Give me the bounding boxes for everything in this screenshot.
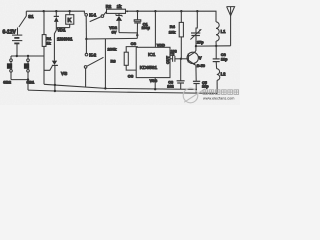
svg-text:R4: R4 [170,24,176,29]
node SB1 top junction [27,55,29,57]
wire C2 to base [175,58,188,60]
svg-text:R3: R3 [111,59,117,64]
svg-text:R1: R1 [46,37,51,41]
wire VD2 bottom to C1 node [119,33,137,36]
svg-text:27p: 27p [197,41,204,45]
node R2 right end [126,10,128,12]
node K coil top junction [69,10,71,12]
svg-text:VD1: VD1 [57,28,66,33]
node K-2 top junction [85,38,87,40]
node battery-minus junction [16,55,18,57]
zener diode VD2 6V [109,13,122,34]
node trimmer top [196,10,198,12]
svg-text:C2: C2 [170,53,175,57]
svg-text:100μ: 100μ [142,26,150,30]
node R4/C3 junction [180,58,182,60]
relay contact K-1 [85,12,107,22]
battery GB 6-12V [3,30,23,57]
pushbutton SB1 [24,56,35,90]
relay contact K-2 [84,39,103,87]
pin VSS [150,78,158,91]
thyristor VS [44,61,67,85]
wire rail link [54,85,56,91]
svg-text:OS: OS [131,42,137,46]
node C1 top [136,10,138,12]
svg-text:1N4001: 1N4001 [57,37,73,42]
node K-2 branch on rail A [104,87,106,89]
svg-text:6-12V: 6-12V [3,30,17,36]
wire top rail left section [26,11,84,13]
wire node to SCR anode [54,28,56,61]
svg-text:L1: L1 [221,29,227,34]
wire VD1-K bottom node [56,27,69,29]
node R1 top junction [43,10,45,12]
svg-text:SB2: SB2 [3,80,12,85]
wire gate feed vertical [43,56,45,84]
capacitor C6 18p [213,46,228,69]
relay coil K [66,11,74,27]
svg-text:VDD: VDD [157,43,165,47]
svg-text:16p: 16p [202,85,209,89]
svg-text:260k: 260k [108,47,118,52]
node SB junction [27,78,29,80]
capacitor C2 103 [170,49,177,61]
wire ground rail B [28,90,217,93]
resistor R1 [42,11,51,56]
diode VD1 1N4001 [54,11,73,41]
antenna W [227,7,235,46]
resistor R2 [106,4,126,13]
transistor V D-50 [187,46,205,81]
wire SB2 bottom to SB1 [11,79,28,81]
trimmer capacitor 27p [190,11,204,47]
node VD1 top junction [55,10,57,12]
svg-text:K-1: K-1 [89,12,97,17]
capacitor C3 102 [167,59,184,89]
svg-text:V: V [199,55,202,60]
wire battery minus to buttons [11,55,44,57]
pin OUT [166,55,173,64]
pin VDD [155,11,165,47]
svg-text:102: 102 [167,84,173,88]
switch S1 [18,11,35,35]
inductor L1 [216,22,226,46]
wire K-1 drop to K-2 node [85,16,87,39]
capacitor C5 16p [193,81,209,93]
svg-text:6V: 6V [112,29,117,34]
resistor R4 10k [169,11,184,59]
wire top rail right section [126,11,217,22]
svg-text:K: K [68,18,72,24]
svg-text:10k: 10k [169,30,176,35]
wire ground rail A [44,84,197,89]
svg-text:S1: S1 [28,14,34,19]
svg-text:K-2: K-2 [89,52,97,57]
op-amp U1 / IC1 KD9561 box [136,47,170,77]
svg-text:D-50: D-50 [197,64,205,68]
svg-text:VS: VS [61,71,67,76]
svg-text:R2: R2 [106,4,112,9]
node SCR cathode [54,84,56,86]
svg-text:OS: OS [128,74,134,78]
resistor R3 260k [108,47,138,71]
svg-text:www.elecfans.com: www.elecfans.com [203,97,234,101]
node L1/C6 junction [215,45,217,47]
svg-text:L2: L2 [221,71,227,76]
wire K-2 node to C1 bottom [86,37,137,40]
svg-text:1k: 1k [117,4,122,9]
node VDD top [154,10,156,12]
svg-text:18p: 18p [221,57,228,61]
svg-text:KD9561: KD9561 [140,65,158,71]
node VD2/C1 junction [136,34,138,36]
watermark logo [183,88,205,103]
wire K-2 branch vertical [104,39,106,88]
svg-text:IC1: IC1 [148,52,156,58]
node R4 top [180,10,182,12]
watermark text [203,90,239,95]
wire collector node line [196,45,231,47]
capacitor C1 100u [134,11,150,38]
node rail B link [54,90,56,92]
pushbutton SB2 [3,56,12,85]
inductor L2 [217,69,227,94]
svg-text:VSS: VSS [150,79,158,83]
